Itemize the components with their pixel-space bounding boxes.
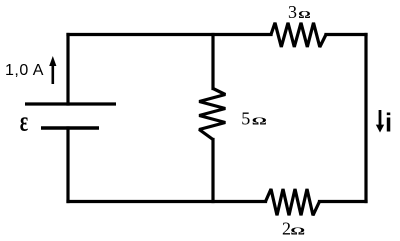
battery short plate [41,126,99,129]
wire bottom-right segment [320,200,367,203]
svg-text:i: i [385,110,392,138]
svg-text:ε: ε [20,106,29,138]
resistor R2 2ohm [266,189,320,215]
svg-text:3: 3 [288,2,297,22]
wire middle branch lower [211,140,214,202]
wire left branch upper [66,35,69,105]
current arrow i (down) [376,110,384,133]
current arrow 1,0 A (up) [49,56,56,84]
wire top-left segment [68,33,271,36]
svg-text:Ω: Ω [298,9,310,21]
resistor R1 3ohm [271,23,326,47]
resistor R3 5ohm [199,89,225,140]
wire bottom-left segment [68,200,266,203]
wire middle branch upper [211,35,214,89]
battery long plate [25,102,116,105]
wire top-right segment [326,33,366,36]
wire right branch [364,35,367,202]
svg-text:5: 5 [241,108,250,128]
svg-text:Ω: Ω [290,226,305,237]
svg-text:Ω: Ω [252,116,267,127]
wire left branch lower [66,128,69,202]
svg-text:1,0 A: 1,0 A [5,62,44,79]
